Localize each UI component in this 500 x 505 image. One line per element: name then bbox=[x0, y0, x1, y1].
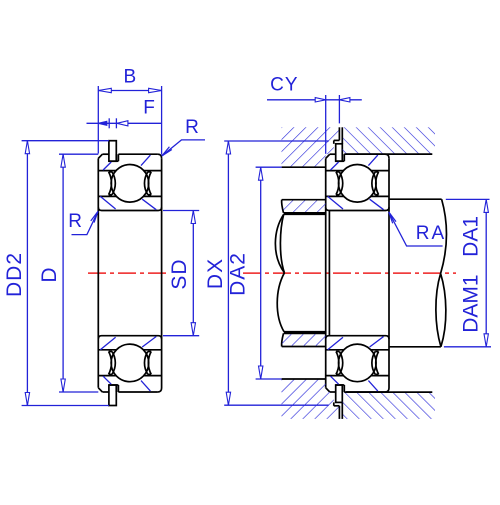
outer ring inner surface right view upper bbox=[326, 170, 389, 172]
dimension DX lines bbox=[224, 141, 329, 405]
inner ring bore left view upper bbox=[98, 207, 161, 210]
label B bbox=[123, 67, 137, 88]
housing snap ring slot lower bbox=[334, 402, 343, 419]
shaft shoulder silhouette right piece bbox=[389, 199, 442, 347]
outer ring inner surface left view upper bbox=[98, 170, 161, 172]
svg-text:CY: CY bbox=[270, 75, 298, 96]
inner ring bore right view upper bbox=[326, 207, 389, 210]
label DAM1 bbox=[460, 274, 483, 332]
inner ring outer surface right view lower bbox=[326, 349, 389, 351]
dimension F lines bbox=[87, 118, 162, 128]
outer ring chamfers left view upper bbox=[98, 154, 161, 158]
raceway groove right right view lower bbox=[372, 352, 379, 375]
label RA bbox=[416, 223, 446, 244]
snap ring and groove left view upper bbox=[109, 141, 119, 162]
svg-text:R: R bbox=[68, 211, 83, 232]
label R lower bbox=[68, 211, 83, 232]
right view inner ring right face bbox=[388, 158, 390, 388]
svg-text:R: R bbox=[185, 117, 200, 138]
svg-text:RA: RA bbox=[416, 223, 446, 244]
label DX bbox=[204, 258, 227, 289]
outer ring inner surface right view lower bbox=[326, 375, 389, 377]
label F bbox=[143, 97, 156, 118]
svg-text:DA1: DA1 bbox=[460, 216, 483, 257]
svg-text:F: F bbox=[143, 97, 156, 118]
label CY bbox=[270, 75, 298, 96]
outer ring outer surface left view lower bbox=[102, 391, 157, 393]
leader R lower bbox=[72, 211, 99, 234]
snap ring and groove right view lower bbox=[336, 385, 345, 402]
label R upper bbox=[185, 117, 200, 138]
chamfer radius marks right view lower bbox=[328, 337, 384, 392]
inner ring bore right view lower bbox=[326, 336, 389, 339]
outer ring chamfers left view lower bbox=[98, 388, 161, 392]
dimension CY lines bbox=[267, 95, 362, 154]
leader R upper bbox=[162, 140, 205, 156]
shaft break line right piece bbox=[436, 199, 447, 347]
svg-text:DD2: DD2 bbox=[3, 252, 26, 297]
outer ring chamfers right view upper bbox=[326, 154, 389, 158]
outer ring chamfers right view lower bbox=[326, 388, 389, 392]
svg-text:SD: SD bbox=[168, 258, 191, 289]
dimension D lines bbox=[59, 154, 98, 392]
housing hatch lower left bbox=[282, 379, 340, 419]
snap ring and groove left view lower bbox=[109, 385, 119, 406]
left view inner ring left face bbox=[97, 158, 99, 387]
inner ring outer surface left view lower bbox=[98, 349, 161, 351]
housing shoulder bore lower bbox=[282, 378, 326, 380]
inner ring outer surface right view upper bbox=[326, 195, 389, 197]
raceway groove right right view upper bbox=[372, 172, 379, 195]
svg-text:DX: DX bbox=[204, 258, 227, 289]
housing hatch upper left bbox=[282, 127, 340, 167]
outer ring outer surface right view lower bbox=[330, 391, 385, 393]
snap ring and groove right view upper bbox=[336, 144, 345, 161]
housing snap ring slot upper bbox=[334, 127, 343, 144]
shaft surface lines left piece bbox=[284, 214, 326, 331]
leader RA bbox=[389, 212, 443, 246]
ball left view upper bbox=[111, 165, 149, 203]
dimension SD lines bbox=[163, 211, 199, 336]
right view inner ring left face bbox=[325, 158, 327, 387]
inner ring bore left view lower bbox=[98, 336, 161, 339]
raceway groove left right view lower bbox=[336, 352, 343, 375]
raceway groove left left view upper bbox=[109, 172, 116, 195]
chamfer radius marks left view lower bbox=[100, 337, 156, 392]
dimension DA2 lines bbox=[256, 167, 282, 379]
svg-text:DA2: DA2 bbox=[227, 252, 250, 296]
axis centerline left view bbox=[88, 272, 168, 274]
outer ring inner surface left view lower bbox=[98, 375, 161, 377]
outer ring outer surface left view upper bbox=[102, 153, 157, 155]
dimension DA1 DAM1 lines bbox=[444, 199, 491, 346]
svg-text:DAM1: DAM1 bbox=[460, 274, 483, 332]
dimension B lines bbox=[98, 86, 161, 155]
dimension DD2 lines bbox=[22, 141, 109, 406]
ball right view lower bbox=[339, 344, 377, 382]
raceway groove right left view upper bbox=[144, 172, 151, 195]
housing shoulder bore upper bbox=[282, 166, 326, 168]
label SD bbox=[168, 258, 191, 289]
left view inner ring right face bbox=[161, 158, 163, 388]
axis centerline right view bbox=[243, 272, 456, 274]
chamfer radius marks right view upper bbox=[328, 155, 384, 210]
svg-text:B: B bbox=[123, 67, 137, 88]
ball left view lower bbox=[111, 344, 149, 382]
label DA1 bbox=[460, 216, 483, 257]
raceway groove left right view upper bbox=[336, 172, 343, 195]
label DD2 bbox=[3, 252, 26, 297]
shaft abutment spacer lower bbox=[282, 333, 326, 346]
housing hatch lower right bbox=[342, 392, 435, 419]
shaft step edge at bearing seat bbox=[328, 211, 330, 336]
chamfer radius marks left view upper bbox=[100, 155, 156, 210]
raceway groove left left view lower bbox=[109, 352, 116, 375]
outer ring outer surface right view upper bbox=[330, 153, 385, 155]
shaft abutment spacer upper bbox=[282, 200, 326, 213]
label D bbox=[38, 266, 61, 282]
ball right view upper bbox=[339, 165, 377, 203]
housing bore line upper bbox=[344, 153, 432, 155]
housing bore line lower bbox=[344, 391, 432, 393]
inner ring outer surface left view upper bbox=[98, 195, 161, 197]
raceway groove right left view lower bbox=[144, 352, 151, 375]
housing hatch upper right bbox=[342, 127, 435, 154]
label DA2 bbox=[227, 252, 250, 296]
shaft break line left piece bbox=[275, 214, 284, 331]
svg-text:D: D bbox=[38, 266, 61, 282]
